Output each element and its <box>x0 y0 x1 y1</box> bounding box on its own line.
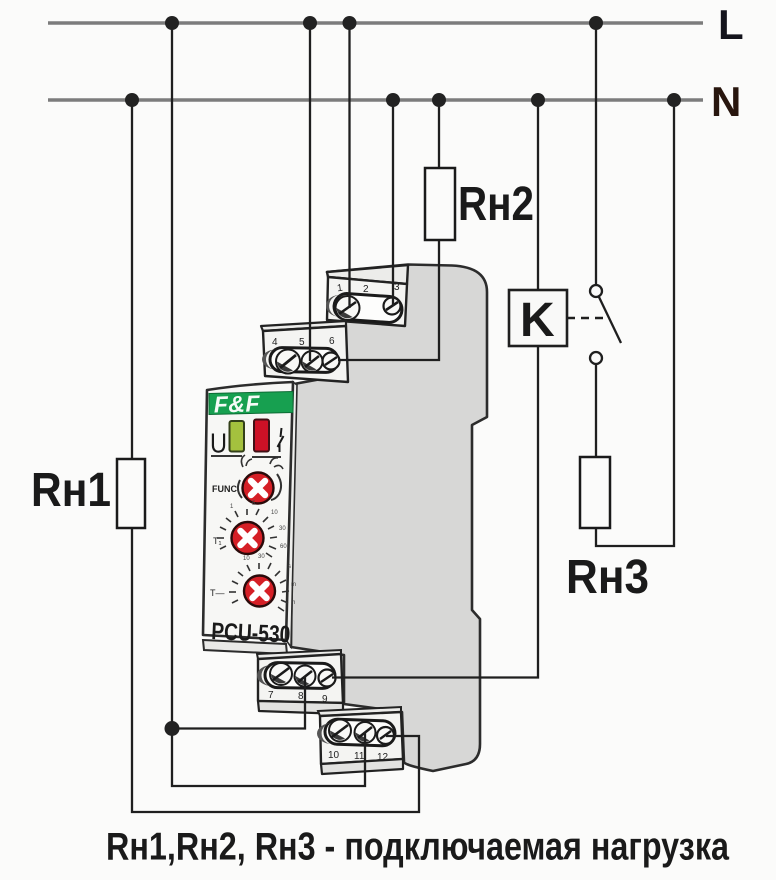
green LED bar <box>230 421 245 452</box>
terminal block 1-2-3 slot <box>325 292 403 323</box>
svg-text:30: 30 <box>258 554 265 560</box>
dashed link K to switch <box>567 317 608 320</box>
wire L to terminal 1 <box>348 23 350 308</box>
contactor coil K box <box>509 290 567 346</box>
screw 7 <box>270 663 292 685</box>
svg-text:12: 12 <box>377 752 389 763</box>
wire Rn2 to terminal 6 <box>338 240 439 360</box>
terminal block 4-5-6 top face <box>261 321 346 331</box>
screw 8 <box>295 666 316 687</box>
switch blade <box>599 296 622 343</box>
svg-text:60: 60 <box>280 544 287 550</box>
svg-text:K: K <box>520 294 555 347</box>
svg-text:h: h <box>292 600 295 606</box>
junction dots on N bus <box>125 93 139 107</box>
wire N to resistor Rn1 <box>131 100 133 459</box>
switch contact top <box>590 285 602 297</box>
resistor Rn3 <box>580 457 610 528</box>
svg-text:U: U <box>210 428 227 459</box>
wire Rn1 to terminal 12 <box>132 528 419 812</box>
node A junction dot <box>165 721 180 736</box>
svg-text:F&F: F&F <box>213 390 260 417</box>
svg-text:9: 9 <box>322 694 328 705</box>
svg-text:30: 30 <box>279 526 286 532</box>
svg-text:4: 4 <box>272 337 278 348</box>
svg-text:Rн2: Rн2 <box>458 178 534 231</box>
svg-text:FUNC: FUNC <box>212 484 237 494</box>
wire node A to terminal 8 <box>172 676 305 729</box>
F&F green banner <box>209 392 293 415</box>
wire L to switch contact <box>595 23 597 285</box>
svg-text:10: 10 <box>243 556 250 562</box>
screw 9 <box>319 670 336 687</box>
screw 11 <box>355 722 376 743</box>
knob T2 tiny scale digits <box>243 554 296 606</box>
terminal block 7-8-9 bottom lip <box>258 701 343 714</box>
terminal block 7-8-9 slot <box>265 662 335 688</box>
wire Rn3 to N <box>596 100 674 546</box>
svg-text:Rн1,Rн2, Rн3 - подключаемая на: Rн1,Rн2, Rн3 - подключаемая нагрузка <box>106 826 729 869</box>
knob T1 ticks <box>217 509 277 557</box>
svg-text:10: 10 <box>328 750 340 761</box>
svg-text:8: 8 <box>298 691 304 702</box>
knob FUNC <box>243 473 274 504</box>
screw 2 <box>384 298 401 315</box>
svg-text:T₁: T₁ <box>213 536 222 546</box>
svg-text:L: L <box>718 1 744 48</box>
terminal block 4-5-6 slot <box>262 347 338 372</box>
wire N to resistor Rn2 <box>438 100 440 168</box>
terminal block 10-11-12 front face <box>320 712 403 764</box>
terminal block 1-2-3 top face <box>327 265 408 284</box>
terminal block 10-11-12 top sliver <box>318 707 401 716</box>
wire N to contactor K <box>537 100 539 290</box>
knob T1 tiny scale digits <box>230 501 287 550</box>
svg-text:6: 6 <box>329 336 335 347</box>
screw 1 <box>336 296 360 320</box>
terminal block 10-11-12 slot <box>325 719 396 746</box>
junction dots on L bus <box>165 16 179 30</box>
panel side sliver <box>286 382 297 647</box>
svg-text:7: 7 <box>268 690 274 701</box>
svg-text:2: 2 <box>363 284 369 295</box>
front panel <box>203 382 293 640</box>
screw 4 <box>276 350 300 374</box>
switch contact bottom <box>590 352 602 364</box>
screw 6 <box>323 353 340 370</box>
screw 10 <box>329 720 351 742</box>
wire node A to terminal 11 <box>172 729 365 787</box>
terminal block 7-8-9 front face <box>258 654 343 703</box>
wire L to terminal 5 <box>309 23 311 361</box>
terminal block 4-5-6 front face <box>263 326 348 382</box>
red LED bar <box>254 420 269 452</box>
svg-text:Rн1: Rн1 <box>31 464 111 517</box>
wire L bus <box>48 21 703 24</box>
svg-text:N: N <box>711 78 741 125</box>
terminal block 10-11-12 bottom lip <box>321 759 403 774</box>
knob T2 ticks <box>229 563 289 611</box>
svg-text:10: 10 <box>271 510 278 516</box>
terminal block 7-8-9 top sliver <box>257 650 341 659</box>
front panel bottom band <box>203 640 287 654</box>
wire switch to resistor Rn3 <box>595 364 597 457</box>
svg-text:Rн3: Rн3 <box>566 551 649 604</box>
knob T2 <box>244 576 275 607</box>
svg-text:3: 3 <box>394 282 400 293</box>
knob FUNC decorations <box>241 455 283 469</box>
svg-text:PCU-530: PCU-530 <box>211 618 291 649</box>
terminal block 1-2-3 front face <box>327 277 407 326</box>
wire N to terminal 2 <box>392 100 394 306</box>
svg-text:11: 11 <box>354 751 365 762</box>
resistor Rn1 <box>117 459 145 528</box>
wire terminal 9 to contactor K <box>332 346 538 678</box>
svg-text:T—: T— <box>210 588 225 598</box>
knob T1 <box>232 522 264 554</box>
relay module PCU-530 body (side view) <box>291 265 487 772</box>
wire L to node A <box>171 23 173 729</box>
load symbol glyph <box>278 428 284 452</box>
svg-text:s: s <box>288 564 291 570</box>
screw 12 <box>377 727 394 744</box>
resistor Rn2 <box>425 168 455 240</box>
screw 5 <box>302 351 323 372</box>
svg-text:5: 5 <box>299 337 305 348</box>
svg-text:m: m <box>291 582 296 588</box>
wire N bus <box>48 98 703 101</box>
